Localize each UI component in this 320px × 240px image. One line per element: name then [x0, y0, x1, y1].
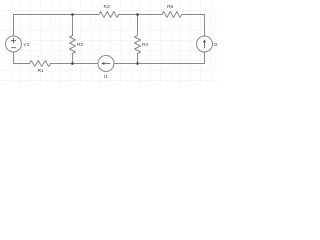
wire top rail segment 2	[119, 14, 163, 16]
junction R2 top	[71, 13, 74, 16]
svg-text:I1: I1	[104, 74, 108, 80]
resistor R3	[99, 12, 119, 18]
I1 arrow	[101, 62, 110, 65]
wire bottom-right vertical	[204, 52, 206, 64]
wire bottom rail segment 3	[114, 63, 205, 65]
voltage source V1	[6, 36, 22, 52]
resistor R1	[30, 61, 51, 67]
svg-text:R3: R3	[104, 4, 110, 10]
current source I1	[98, 56, 114, 72]
V1 minus sign	[11, 47, 16, 49]
svg-text:R2: R2	[77, 42, 83, 48]
svg-text:R4: R4	[142, 42, 148, 48]
wire bottom rail segment 2	[51, 63, 99, 65]
wire top-left vertical	[13, 15, 15, 37]
resistor R4	[135, 15, 141, 64]
wire top rail segment 3	[182, 14, 205, 16]
svg-text:R5: R5	[167, 4, 173, 10]
svg-text:I2: I2	[214, 42, 218, 48]
svg-text:V1: V1	[24, 42, 30, 48]
junction R4 top	[136, 13, 139, 16]
wire bottom rail segment 1	[14, 63, 30, 65]
resistor R2	[70, 15, 76, 64]
wire top rail segment 1	[14, 14, 100, 16]
wire bottom-left vertical	[13, 52, 15, 64]
V1 plus sign	[11, 38, 16, 43]
I2 arrow	[203, 39, 206, 48]
junction R4 bottom	[136, 62, 139, 65]
current source I2	[197, 36, 213, 52]
junction R2 bottom	[71, 62, 74, 65]
wire top-right vertical	[204, 15, 206, 37]
svg-text:R1: R1	[38, 68, 44, 74]
resistor R5	[162, 12, 182, 18]
